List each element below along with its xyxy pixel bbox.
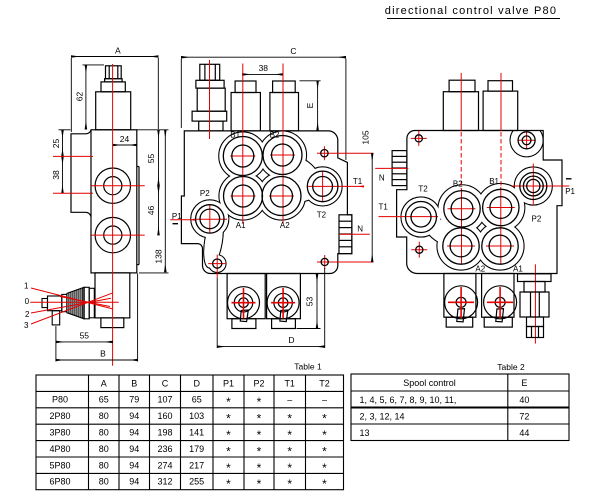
svg-text:80: 80 xyxy=(99,460,109,470)
right step strip xyxy=(138,167,140,265)
svg-text:5P80: 5P80 xyxy=(49,460,70,470)
svg-text:80: 80 xyxy=(99,428,109,438)
top boss 2 (right view) xyxy=(488,81,513,91)
svg-text:25: 25 xyxy=(51,139,61,149)
body main face xyxy=(71,130,139,273)
dim C xyxy=(181,57,346,160)
svg-text:*: * xyxy=(226,428,231,442)
red lever fan lines xyxy=(30,288,118,324)
svg-text:directional control valve P: directional control valve P80 xyxy=(385,5,557,17)
red centerline vertical xyxy=(53,64,145,366)
svg-text:A: A xyxy=(101,378,107,388)
svg-text:*: * xyxy=(257,477,262,491)
svg-text:P2: P2 xyxy=(200,189,210,198)
svg-text:*: * xyxy=(226,412,231,426)
svg-text:T1: T1 xyxy=(284,378,295,388)
svg-text:*: * xyxy=(287,444,292,458)
relief valve washer xyxy=(105,79,123,82)
port A1r xyxy=(482,228,518,264)
svg-text:38: 38 xyxy=(51,170,61,180)
svg-text:*: * xyxy=(322,412,327,426)
svg-text:A1: A1 xyxy=(236,221,246,230)
red centerlines middle view xyxy=(170,60,373,278)
svg-text:72: 72 xyxy=(519,411,529,421)
svg-text:*: * xyxy=(322,428,327,442)
svg-text:B1: B1 xyxy=(230,130,240,139)
svg-text:A2: A2 xyxy=(475,265,485,274)
svg-text:P2: P2 xyxy=(532,215,542,224)
svg-text:*: * xyxy=(322,444,327,458)
Table 1 header row xyxy=(49,378,329,491)
svg-text:13: 13 xyxy=(360,428,370,438)
N boss (right view) xyxy=(392,151,407,186)
dim 25 xyxy=(59,130,71,157)
svg-text:0: 0 xyxy=(25,297,30,306)
svg-text:A: A xyxy=(115,46,121,56)
svg-text:4P80: 4P80 xyxy=(49,444,70,454)
svg-text:D: D xyxy=(288,335,294,345)
svg-text:62: 62 xyxy=(75,92,85,102)
red centerlines (right view) xyxy=(375,73,569,344)
svg-text:T1: T1 xyxy=(353,177,363,186)
svg-text:1, 4, 5, 6, 7, 8, 9, 10: 1, 4, 5, 6, 7, 8, 9, 10, 11, xyxy=(360,395,457,405)
spool circles left xyxy=(228,287,300,322)
relief valve hex cap xyxy=(96,66,131,130)
svg-text:B: B xyxy=(131,378,137,388)
svg-text:80: 80 xyxy=(99,411,109,421)
svg-text:T2: T2 xyxy=(319,378,330,388)
svg-text:T2: T2 xyxy=(317,211,327,220)
svg-text:94: 94 xyxy=(129,411,139,421)
svg-text:55: 55 xyxy=(146,154,156,164)
svg-text:B2: B2 xyxy=(453,180,463,189)
spool circles right xyxy=(267,287,299,319)
svg-text:160: 160 xyxy=(157,411,172,421)
svg-text:Table 1: Table 1 xyxy=(294,362,322,372)
title: directional control valve P80 xyxy=(385,5,560,19)
svg-text:217: 217 xyxy=(189,460,204,470)
body outline (right view) xyxy=(397,131,562,274)
spool red crosses xyxy=(232,288,296,319)
dim B xyxy=(56,274,138,362)
svg-text:*: * xyxy=(257,461,262,475)
svg-text:55: 55 xyxy=(80,331,90,341)
svg-text:N: N xyxy=(357,224,363,233)
port cluster contour (raised face) xyxy=(191,131,342,272)
P1 tick mark xyxy=(566,178,572,180)
dim 62 xyxy=(83,65,105,129)
port B2r xyxy=(444,191,480,227)
svg-text:Table 2: Table 2 xyxy=(497,362,525,372)
svg-text:103: 103 xyxy=(189,411,204,421)
svg-text:*: * xyxy=(287,477,292,491)
svg-text:138: 138 xyxy=(154,249,164,263)
Table 1 grid xyxy=(36,375,344,490)
svg-text:24: 24 xyxy=(120,134,130,144)
svg-text:44: 44 xyxy=(519,428,529,438)
svg-text:312: 312 xyxy=(157,477,172,487)
svg-text:94: 94 xyxy=(129,444,139,454)
svg-text:–: – xyxy=(287,395,292,405)
svg-text:3: 3 xyxy=(24,321,29,330)
svg-text:107: 107 xyxy=(157,395,172,405)
svg-text:*: * xyxy=(226,477,231,491)
port A2r xyxy=(443,228,479,264)
svg-text:6P80: 6P80 xyxy=(49,477,70,487)
svg-text:2P80: 2P80 xyxy=(49,411,70,421)
dim 53 xyxy=(297,274,321,328)
svg-text:255: 255 xyxy=(189,477,204,487)
lever boot assembly xyxy=(42,287,94,325)
dim 38 left xyxy=(62,156,64,193)
svg-text:198: 198 xyxy=(157,428,172,438)
svg-text:D: D xyxy=(193,378,200,388)
port B1r xyxy=(483,189,519,225)
port T1 xyxy=(307,171,338,202)
svg-text:*: * xyxy=(287,412,292,426)
svg-text:105: 105 xyxy=(360,130,370,144)
mounting holes right view xyxy=(415,135,422,142)
svg-text:*: * xyxy=(287,428,292,442)
svg-text:2: 2 xyxy=(25,310,30,319)
N side boss xyxy=(339,215,352,254)
svg-text:*: * xyxy=(226,444,231,458)
svg-text:T1: T1 xyxy=(379,203,389,212)
dim 138 xyxy=(139,130,169,273)
boss B1 xyxy=(231,81,298,131)
svg-text:53: 53 xyxy=(304,297,314,307)
svg-text:274: 274 xyxy=(157,460,172,470)
svg-text:P80: P80 xyxy=(52,395,68,405)
svg-text:1: 1 xyxy=(24,282,29,291)
svg-text:A2: A2 xyxy=(280,221,290,230)
dim A xyxy=(71,57,158,133)
svg-text:P1: P1 xyxy=(172,212,182,221)
svg-text:N: N xyxy=(379,174,385,183)
relief valve lower block xyxy=(96,92,131,130)
svg-text:79: 79 xyxy=(129,395,139,405)
dim 55 right xyxy=(137,130,169,186)
svg-text:Spool control: Spool control xyxy=(403,378,456,388)
svg-text:236: 236 xyxy=(157,444,172,454)
bonnet block xyxy=(95,273,130,328)
svg-text:94: 94 xyxy=(129,428,139,438)
relief valve (middle) xyxy=(192,64,227,131)
lever bracket xyxy=(52,311,60,325)
svg-text:B: B xyxy=(100,349,106,359)
svg-text:P1: P1 xyxy=(565,187,575,196)
svg-text:94: 94 xyxy=(129,460,139,470)
port circle 2 xyxy=(95,217,130,252)
svg-text:65: 65 xyxy=(99,395,109,405)
svg-text:B1: B1 xyxy=(489,177,499,186)
svg-text:94: 94 xyxy=(129,477,139,487)
svg-text:–: – xyxy=(322,395,327,405)
svg-text:*: * xyxy=(287,461,292,475)
svg-text:*: * xyxy=(226,395,231,409)
svg-text:179: 179 xyxy=(189,444,204,454)
svg-text:80: 80 xyxy=(99,444,109,454)
svg-text:*: * xyxy=(226,461,231,475)
svg-text:40: 40 xyxy=(519,395,529,405)
port P2 xyxy=(196,205,224,233)
dim D xyxy=(217,268,325,348)
svg-text:2, 3, 12, 14: 2, 3, 12, 14 xyxy=(360,411,405,421)
svg-text:E: E xyxy=(521,378,527,388)
top boss 1 (right view) xyxy=(443,80,517,130)
Table 2 text xyxy=(360,378,530,438)
port cluster contour (raised face, right view) xyxy=(401,124,552,270)
svg-text:P1: P1 xyxy=(223,378,234,388)
svg-text:*: * xyxy=(322,461,327,475)
svg-text:C: C xyxy=(290,46,296,56)
boss B2 xyxy=(273,81,296,93)
bottom spool blocks (right view) xyxy=(444,274,517,328)
svg-text:80: 80 xyxy=(99,477,109,487)
svg-text:38: 38 xyxy=(259,63,269,73)
svg-text:C: C xyxy=(162,378,169,388)
dim 105 xyxy=(371,153,373,262)
red port centerlines xyxy=(91,185,144,187)
svg-text:T2: T2 xyxy=(418,185,428,194)
svg-text:3P80: 3P80 xyxy=(49,428,70,438)
bottom relief valve (right view) xyxy=(518,274,552,338)
svg-text:65: 65 xyxy=(192,395,202,405)
dim E xyxy=(300,81,321,130)
body outline xyxy=(181,131,352,274)
relief valve upper block xyxy=(101,82,125,92)
left flange xyxy=(71,134,86,213)
svg-text:141: 141 xyxy=(189,428,204,438)
bottom spool block left xyxy=(227,274,300,329)
dim 24 xyxy=(113,144,137,146)
Table 2 grid xyxy=(351,374,569,441)
svg-text:*: * xyxy=(322,477,327,491)
svg-text:*: * xyxy=(257,412,262,426)
ports B1 B2 A1 A2 xyxy=(196,136,338,269)
svg-text:E: E xyxy=(305,102,315,108)
dim 46 xyxy=(158,186,160,235)
svg-text:P2: P2 xyxy=(253,378,264,388)
red dim reference lines xyxy=(53,155,93,157)
svg-text:A1: A1 xyxy=(513,265,523,274)
dim 55 bottom xyxy=(56,326,113,362)
dim 38 xyxy=(242,73,283,75)
mounting holes xyxy=(321,150,328,157)
svg-text:*: * xyxy=(257,444,262,458)
ports right view: T2 xyxy=(406,132,547,264)
svg-text:*: * xyxy=(257,428,262,442)
svg-text:46: 46 xyxy=(146,206,156,216)
P1 tick mark (middle view) xyxy=(173,223,179,225)
svg-text:B2: B2 xyxy=(270,130,280,139)
spool red crosses (right view) xyxy=(448,287,513,318)
svg-text:*: * xyxy=(257,395,262,409)
bottom spool block right xyxy=(267,274,301,319)
port circle 1 xyxy=(95,168,130,253)
port P1r xyxy=(520,173,547,200)
